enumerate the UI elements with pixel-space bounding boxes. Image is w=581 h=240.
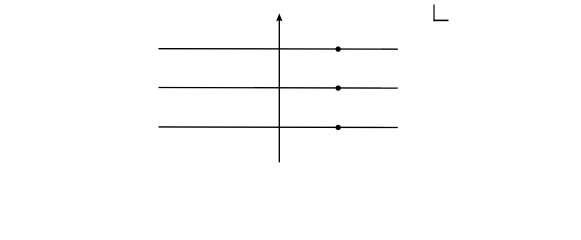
corner mark horizontal — [433, 19, 448, 21]
corner mark vertical — [433, 4, 435, 21]
arrowhead — [276, 13, 282, 21]
node dot 2 — [336, 85, 341, 90]
horizontal line 2 — [159, 87, 398, 90]
vertical axis with arrow — [278, 19, 280, 163]
node dot 1 — [336, 46, 341, 51]
horizontal line 1 — [159, 48, 398, 51]
node dot 3 — [336, 125, 341, 130]
horizontal line 3 — [159, 126, 398, 129]
